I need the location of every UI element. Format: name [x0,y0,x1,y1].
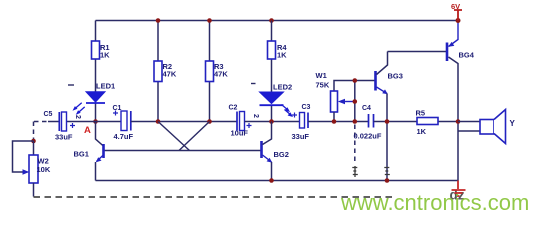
svg-text:2: 2 [252,114,259,118]
wire base line BG1-BG2 [105,150,261,152]
svg-text:C1: C1 [113,105,122,112]
wire C3 to C4 [308,121,368,123]
capacitor C5 [44,111,82,142]
svg-text:6V: 6V [451,2,460,11]
junction LED2/BG2 collector node [269,119,274,124]
capacitor C3 [292,104,311,141]
transistor BG4 [447,21,475,181]
junction BG2 emitter on rail [269,178,274,183]
transistor BG2 [262,122,289,181]
transistor BG3 [376,52,403,181]
wire dashed below C4 junction [354,125,356,164]
svg-text:47K: 47K [214,70,228,79]
wire R3 column [209,21,211,122]
junction node B2 (R3/C2) [207,119,212,124]
wire R4 column [271,21,273,122]
wire bottom ground rail [96,180,459,182]
resistor R5 [416,109,439,137]
potentiometer W2 [13,141,51,197]
supply terminal 6V [451,2,462,23]
svg-text:2: 2 [74,115,81,119]
junction node B1 (R2/C1) [156,119,161,124]
connector mark right [384,168,390,175]
junction W1 top / BG3 base [353,78,358,83]
wire R1 column [95,21,97,122]
resistor R2 [154,61,177,82]
junction R5/BG4 collector/speaker [456,119,461,124]
svg-text:1K: 1K [100,51,110,60]
connector mark left [352,166,358,177]
junction dots top rail [156,18,161,23]
svg-text:BG2: BG2 [274,150,289,159]
svg-text:C2: C2 [229,105,238,112]
junction BG3 emitter / C4 / R5 [385,119,390,124]
svg-text:0.022uF: 0.022uF [354,132,382,141]
node A [84,119,98,136]
svg-text:C3: C3 [302,104,311,111]
svg-text:C5: C5 [44,111,53,118]
resistor R3 [206,61,229,82]
capacitor C4 [354,105,382,141]
wire C4 to R5 to BG4 collector node [374,121,459,123]
resistor R1 [92,41,111,60]
junction BG3 emitter on rail [385,178,390,183]
junction C4 left [353,119,358,124]
svg-text:33uF: 33uF [292,132,310,141]
transistor BG1 [74,122,104,181]
LED LED2 [251,83,293,118]
svg-text:4.7uF: 4.7uF [114,132,134,141]
wire BG3 collector to BG4 base [388,51,447,53]
resistor R4 [268,41,288,60]
wire dashed bottom [34,196,395,198]
svg-text:LED2: LED2 [273,83,292,92]
wire C2 to C3 through LED2 node [245,121,300,123]
svg-text:75K: 75K [316,81,330,90]
svg-text:BG4: BG4 [459,51,475,60]
potentiometer W1 [316,71,375,122]
wire dashed vertical to W2 [33,122,35,141]
svg-text:W1: W1 [316,71,327,80]
svg-text:A: A [84,125,91,136]
wire dashed input coupling to C5 [34,121,48,123]
speaker Y [458,110,516,144]
svg-text:33uF: 33uF [55,133,73,142]
svg-text:1K: 1K [277,51,287,60]
capacitor C2 [229,105,260,138]
svg-text:BG1: BG1 [74,150,89,159]
junction W2 top [31,139,36,144]
svg-text:10K: 10K [37,165,51,174]
svg-text:10uF: 10uF [231,129,249,138]
wire top supply rail [96,20,459,22]
svg-text:www.cntronics.com: www.cntronics.com [340,190,529,215]
capacitor C1 [113,105,134,141]
svg-text:BG3: BG3 [388,72,403,81]
wire R2 column [157,21,159,122]
wire cross-coupling diagonal 2 [179,122,210,151]
ground [452,181,466,197]
svg-text:47K: 47K [163,70,177,79]
svg-text:R5: R5 [416,109,426,118]
wire cross-coupling diagonal 1 [158,122,190,151]
svg-text:LED1: LED1 [96,82,115,91]
junction W1 bottom [332,119,337,124]
junction W1 wiper [353,99,358,104]
svg-text:Y: Y [510,119,516,128]
wire node A horizontal [67,121,122,123]
svg-text:C4: C4 [362,105,371,112]
wire C1 to C2 through base junctions [131,121,237,123]
svg-text:1K: 1K [417,127,427,136]
LED LED1 [68,82,115,115]
